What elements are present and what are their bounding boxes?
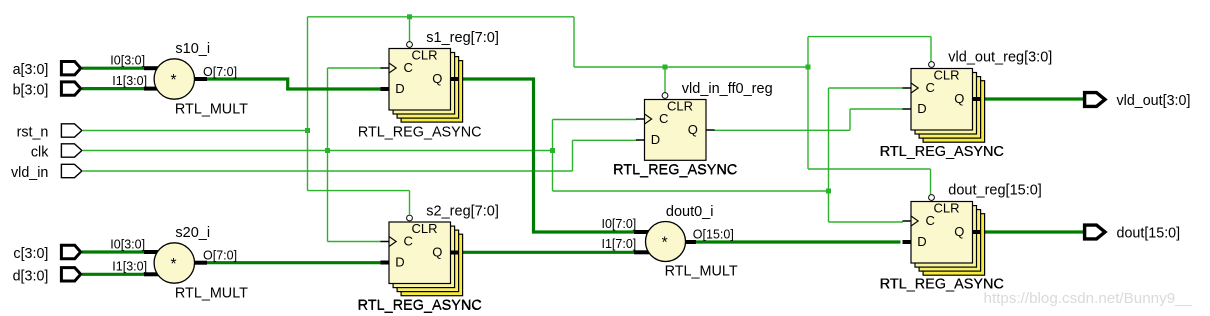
bus vld_out_reg Q to vld_out port [981,97,1085,100]
svg-text:D: D [917,234,926,249]
junction rst_n at (665,67) [663,65,668,70]
pin stub s20_i O [194,261,207,265]
wire vld_in from port [83,170,573,172]
junction rst_n at (409.5,16.8) [407,14,412,19]
pin stub dout0_i O [685,240,696,244]
svg-text:O[15:0]: O[15:0] [693,228,734,242]
wire clk to s1_reg C [328,67,382,69]
svg-text:RTL_REG_ASYNC: RTL_REG_ASYNC [358,124,482,140]
svg-text:vld_out[3:0]: vld_out[3:0] [1117,93,1191,109]
junction rst_n at (307.5,130.5) [305,128,310,133]
svg-text:D: D [395,255,404,270]
svg-text:RTL_REG_ASYNC: RTL_REG_ASYNC [879,144,1004,160]
svg-text:C: C [659,111,668,126]
svg-text:D: D [917,101,926,116]
svg-text:c[3:0]: c[3:0] [13,246,48,262]
multiplier U-s10 (s10_i) RTL_MULT [154,59,194,99]
svg-text:C: C [404,60,413,75]
svg-text:RTL_REG_ASYNC: RTL_REG_ASYNC [357,298,482,314]
input port clk [61,144,82,157]
wire clk to vld_in_ff0_reg C [553,119,637,121]
svg-text:*: * [170,256,176,273]
svg-text:CLR: CLR [412,221,438,236]
svg-text:vld_in: vld_in [11,165,48,181]
wire vld_in vertical x=572.5 [572,140,574,171]
svg-text:dout0_i: dout0_i [666,204,714,220]
wire rst_n drop to dout_reg CLR [930,169,932,194]
svg-text:a[3:0]: a[3:0] [13,62,49,78]
multiplier U-s20 (s20_i) RTL_MULT [154,243,194,283]
bus s1_reg Q to dout0_i I0 [459,79,635,232]
input port rst_n [61,124,82,137]
svg-text:I1[7:0]: I1[7:0] [602,237,637,251]
svg-text:*: * [662,234,668,251]
svg-text:I1[3:0]: I1[3:0] [112,260,147,274]
register R2 (s2_reg[7:0]) RTL_REG_ASYNC [381,215,463,296]
svg-text:Q: Q [688,122,698,137]
input port c[3:0] [61,245,80,258]
svg-text:vld_out_reg[3:0]: vld_out_reg[3:0] [948,49,1052,65]
pin stub s10_i I0 [144,66,158,70]
svg-text:CLR: CLR [934,68,960,83]
svg-text:*: * [170,72,176,89]
wire rst_n drop to s2_reg CLR [409,191,411,215]
wire rst_n from port to junction [83,130,308,132]
wire rst_n drop to vld_in_ff0_reg CLR [664,67,666,93]
wire rst_n horizontal y=169 [808,168,931,170]
wire vld_in_ff0 Q to vld_out_reg D [850,108,903,110]
svg-text:D: D [395,81,404,96]
wire rst_n drop to s1_reg CLR [409,17,411,42]
input port a[3:0] [61,62,80,75]
junction clk at (552.5,150.5) [550,148,555,153]
wire clk vertical x=552.5 [552,120,554,192]
wire clk lower horizontal y=191 [553,190,829,192]
svg-text:D: D [651,132,660,147]
multiplier U-dout0 (dout0_i) RTL_MULT [646,222,686,262]
svg-text:RTL_MULT: RTL_MULT [665,264,738,280]
bus dout_reg Q to dout port [981,230,1085,233]
svg-text:dout[15:0]: dout[15:0] [1117,226,1181,242]
svg-text:clk: clk [31,145,49,161]
svg-text:d[3:0]: d[3:0] [13,268,49,284]
bus a[3:0] from port to s10_i [82,67,144,70]
svg-text:https://blog.csdn.net/Bunny9__: https://blog.csdn.net/Bunny9__ [984,290,1193,307]
output port vld_out[3:0] [1085,93,1105,107]
svg-text:RTL_MULT: RTL_MULT [175,286,248,302]
wire rst_n horizontal y=36.6 [808,36,931,38]
junction clk at (327.5,150.5) [325,148,330,153]
bus s2_reg Q to dout0_i I1 [459,251,635,254]
svg-text:Q: Q [432,71,442,86]
pin stub s10_i I1 [144,87,158,91]
junction rst_n at (808,67) [806,65,811,70]
pin stub s10_i O [194,77,207,81]
pin stub s20_i I1 [144,272,159,276]
svg-text:I1[3:0]: I1[3:0] [112,74,147,88]
input port b[3:0] [61,82,80,95]
svg-text:s1_reg[7:0]: s1_reg[7:0] [426,30,499,46]
svg-text:s2_reg[7:0]: s2_reg[7:0] [426,203,499,219]
svg-text:C: C [926,80,935,95]
junction clk at (828.5,191) [826,189,831,194]
svg-text:I0[3:0]: I0[3:0] [110,237,145,251]
svg-text:b[3:0]: b[3:0] [13,83,49,99]
svg-text:CLR: CLR [667,99,693,114]
bus d[3:0] from port to s20_i [82,273,144,276]
pin stub dout0_i I0 [634,230,649,234]
svg-text:Q: Q [954,224,964,239]
svg-text:Q: Q [954,91,964,106]
pin stub s20_i I0 [144,250,158,254]
bus c[3:0] from port to s20_i [82,250,144,253]
wire clk vertical x=327.5 [327,68,329,242]
wire rst_n vertical x=574 down [573,17,575,67]
wire rst_n drop to vld_out_reg CLR [930,37,932,62]
svg-text:rst_n: rst_n [17,125,49,141]
output port dout[15:0] [1085,225,1105,239]
register R5 (dout_reg[15:0]) RTL_REG_ASYNC [903,195,985,276]
svg-text:s20_i: s20_i [175,225,210,241]
bus b[3:0] from port to s10_i [82,87,144,90]
svg-text:RTL_MULT: RTL_MULT [175,102,248,118]
bus dout0_i O[15:0] to dout_reg D [696,240,901,243]
wire vld_in_ff0 Q vertical x=850 [849,109,851,130]
svg-text:I0[3:0]: I0[3:0] [110,54,145,68]
input port d[3:0] [61,268,80,281]
input port vld_in [61,164,82,177]
wire clk from port to junction [83,150,553,152]
bus s10_i O[7:0] to s1_reg D [207,79,382,89]
wire clk to vld_out_reg C [829,87,904,89]
svg-text:dout_reg[15:0]: dout_reg[15:0] [948,183,1042,199]
wire clk to s2_reg C [328,241,382,243]
svg-text:vld_in_ff0_reg: vld_in_ff0_reg [682,81,773,97]
wire rst_n vertical riser x=307.5 [307,17,309,191]
svg-text:CLR: CLR [934,201,960,216]
svg-text:CLR: CLR [412,48,438,63]
wire vld_in to vld_in_ff0_reg D [573,139,637,141]
bus s20_i O[7:0] to s2_reg D [207,261,382,264]
svg-text:I0[7:0]: I0[7:0] [602,217,637,231]
wire rst_n lower horizontal y=190.6 [308,190,410,192]
wire clk to dout_reg C [829,221,904,223]
wire vld_in_ff0 Q to corner [714,129,850,131]
wire rst_n horizontal y=67 [574,66,808,68]
svg-text:O[7:0]: O[7:0] [203,65,237,79]
register R1 (s1_reg[7:0]) RTL_REG_ASYNC [381,42,463,123]
svg-text:C: C [926,213,935,228]
register R4 (vld_out_reg[3:0]) RTL_REG_ASYNC [903,62,985,143]
svg-text:O[7:0]: O[7:0] [203,249,237,263]
pin stub dout0_i I1 [634,250,649,254]
wire clk vertical x=828.5 [828,88,830,222]
svg-text:s10_i: s10_i [175,41,210,57]
svg-text:C: C [404,234,413,249]
svg-text:RTL_REG_ASYNC: RTL_REG_ASYNC [613,162,738,178]
wire rst_n vertical x=808 [807,37,809,169]
wire rst_n top horizontal to x=574 [308,16,575,18]
register R3 (vld_in_ff0_reg) RTL_REG_ASYNC [636,93,715,161]
svg-text:Q: Q [432,245,442,260]
